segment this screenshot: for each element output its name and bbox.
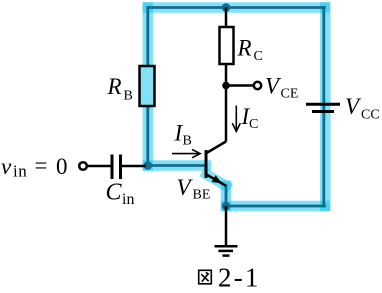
node: collector node (black) xyxy=(222,82,230,90)
node: base junction xyxy=(144,161,153,170)
svg-text:0: 0 xyxy=(56,154,68,179)
wire: bottom core xyxy=(226,205,326,208)
transistor Q1 emitter arrowhead xyxy=(212,175,222,183)
svg-text:2-1: 2-1 xyxy=(218,263,261,293)
svg-text:V: V xyxy=(177,175,194,200)
wire: top core xyxy=(147,6,326,9)
arrow IC xyxy=(232,106,240,132)
battery VCC bottom plate xyxy=(312,110,334,113)
wire: collector branch top xyxy=(225,8,228,28)
label VCE xyxy=(265,74,298,102)
svg-text:=: = xyxy=(35,153,48,178)
svg-text:in: in xyxy=(122,191,134,208)
transistor Q1 collector lead xyxy=(207,142,227,154)
wire: right vertical core xyxy=(322,6,325,207)
battery VCC top plate xyxy=(306,103,340,106)
svg-text:BE: BE xyxy=(193,188,211,203)
node: top junction (collector branch tap) xyxy=(222,3,231,12)
label Cin xyxy=(106,180,135,209)
svg-text:C: C xyxy=(254,49,263,64)
wire: VCE tap xyxy=(226,84,254,87)
capacitor Cin right plate xyxy=(119,155,122,180)
label VBE xyxy=(177,175,211,203)
wire: Cin to base junction xyxy=(122,165,146,168)
label vin = 0 xyxy=(1,153,68,181)
terminal vin open circle xyxy=(79,162,87,170)
svg-text:v: v xyxy=(1,154,12,179)
svg-text:C: C xyxy=(249,117,258,132)
label RC xyxy=(237,36,263,65)
label IC xyxy=(241,104,259,132)
resistor RB xyxy=(140,66,155,106)
node: emitter junction xyxy=(222,202,231,211)
arrow IB xyxy=(172,149,200,157)
ground xyxy=(215,246,238,255)
highlight band: bottom wire xyxy=(226,201,325,212)
highlight band: right vertical wire (VCC branch) xyxy=(320,8,331,207)
svg-text:CC: CC xyxy=(361,108,380,123)
highlight band: top wire xyxy=(148,2,325,13)
svg-text:CE: CE xyxy=(281,87,299,102)
resistor RC xyxy=(220,27,234,64)
svg-text:B: B xyxy=(183,134,192,149)
label RB xyxy=(107,74,133,104)
wire: collector vertical xyxy=(225,86,228,142)
label VCC xyxy=(345,94,380,123)
wire: RC to collector node xyxy=(225,64,228,86)
svg-text:B: B xyxy=(124,89,133,104)
highlight band: base wire xyxy=(148,160,206,171)
svg-text:R: R xyxy=(237,36,252,61)
caption: kanji 図 drawn as strokes xyxy=(199,270,212,284)
wire: vin to Cin xyxy=(87,165,111,168)
teal wire cores of highlighted path xyxy=(147,6,326,207)
label IB xyxy=(174,121,192,149)
transistor Q1 base bar xyxy=(205,150,208,178)
transistor Q1 emitter lead xyxy=(207,175,227,186)
highlight band: emitter vertical xyxy=(221,186,232,206)
svg-text:C: C xyxy=(106,180,123,206)
wire: base core xyxy=(147,164,206,167)
wire: emitter junction to ground xyxy=(225,206,228,246)
highlight band: emitter diagonal xyxy=(207,175,227,186)
terminal VCE open circle xyxy=(254,82,261,89)
capacitor Cin left plate xyxy=(111,155,114,180)
svg-text:in: in xyxy=(13,162,27,181)
svg-text:R: R xyxy=(107,74,122,99)
wire: emitter vertical core xyxy=(225,185,228,207)
svg-text:V: V xyxy=(345,94,362,119)
wire: left vertical core xyxy=(146,6,149,165)
svg-text:V: V xyxy=(265,74,282,99)
highlight band: left vertical wire through RB xyxy=(148,8,325,207)
